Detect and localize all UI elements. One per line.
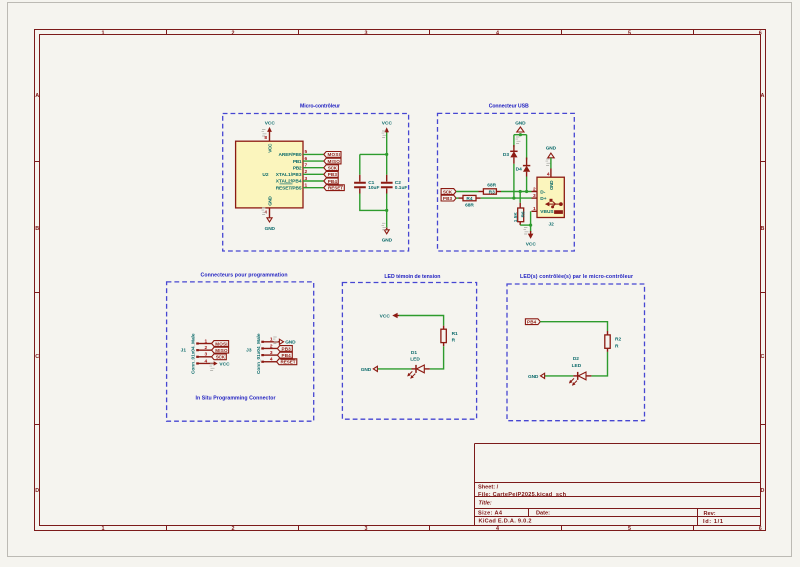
pin 4 of J3 [262,361,277,363]
svg-text:File: CartePeiP2025.kicad_sch: File: CartePeiP2025.kicad_sch [478,492,567,498]
svg-text:MOSI: MOSI [328,152,340,157]
svg-text:U2: U2 [262,172,268,178]
svg-text:GND: GND [546,146,557,152]
svg-text:4: 4 [204,358,207,364]
pin PB2 [293,163,324,172]
svg-text:6: 6 [305,156,308,162]
svg-text:PB3: PB3 [443,196,453,201]
section boxes [167,113,645,421]
node D4/D- junction [525,190,528,193]
power VCC right [210,361,231,370]
wire D3 to D+ [513,164,515,198]
connector J3 [246,333,262,374]
power GND right [279,339,296,346]
svg-text:D-: D- [540,189,545,195]
wire R1 to LED [430,346,444,369]
svg-text:GND: GND [382,237,393,243]
svg-text:LED(s) contrôlée(s) par le mic: LED(s) contrôlée(s) par le micro-contrôl… [520,274,633,280]
svg-text:C: C [761,354,765,360]
svg-text:4: 4 [270,357,273,363]
svg-text:68R: 68R [487,183,496,189]
svg-text:Date:: Date: [536,511,550,517]
svg-text:VCC: VCC [265,121,276,127]
svg-text:GND: GND [361,367,372,373]
svg-text:4: 4 [547,172,550,178]
svg-text:2: 2 [533,186,536,192]
svg-text:R: R [452,338,456,344]
pin 3 D+ of J2 [532,193,547,202]
LED D2 [569,356,592,386]
svg-text:1.5K: 1.5K [513,212,519,223]
svg-text:C: C [35,354,39,360]
svg-text:SCK: SCK [328,166,338,171]
USB icon in J2 [545,199,563,214]
svg-text:In Situ Programming Connector: In Situ Programming Connector [196,396,276,402]
svg-text:B: B [35,226,39,232]
svg-text:XTAL1/PB3: XTAL1/PB3 [276,172,302,178]
resistor R6 pullup [513,190,527,225]
svg-text:3: 3 [533,193,536,199]
pin RESET/PB5 [276,182,324,191]
svg-text:D: D [761,488,765,494]
svg-text:RESET/PB5: RESET/PB5 [276,185,302,191]
pin 3 of J3 [262,354,277,356]
resistor R1 [441,326,458,347]
svg-text:D: D [35,488,39,494]
wire R6 bottom to VBUS node [520,224,530,226]
diode D4 [516,158,531,177]
svg-text:1: 1 [102,526,105,532]
svg-text:5: 5 [628,526,631,532]
svg-text:J1: J1 [181,348,187,354]
power VCC bottom [524,228,537,248]
capacitor C1 [354,175,379,194]
svg-text:SCK: SCK [216,355,226,360]
pin XTAL1/PB3 [276,169,324,178]
wire D4 branch [526,135,528,160]
hier label MISO [324,158,341,164]
hier label SCK [324,165,339,171]
led2 section [525,319,621,386]
capacitor C2 [381,175,407,194]
svg-text:4: 4 [496,30,499,36]
pin 3 of J1 [197,356,212,358]
svg-text:Connecteur USB: Connecteur USB [489,104,529,110]
wire D4 to D- [526,177,528,192]
svg-text:Micro-contrôleur: Micro-contrôleur [300,104,340,110]
svg-text:PB1: PB1 [293,159,302,165]
wire R2 to LED [591,352,607,376]
power GND top bridge [515,121,526,144]
svg-text:3: 3 [365,526,368,532]
svg-text:VCC: VCC [219,361,230,367]
pin 4 of J1 to VCC [197,362,214,364]
resistor R3 [479,183,502,196]
wire LED to GND [377,368,411,370]
wire GND to J2 pin 4 [550,158,552,169]
svg-text:MISO: MISO [215,348,228,353]
svg-text:R1: R1 [452,331,458,337]
svg-text:J3: J3 [246,348,252,354]
pin 4 GND of J2 [547,169,555,191]
svg-text:4: 4 [496,526,499,532]
svg-text:1: 1 [102,30,105,36]
svg-text:2: 2 [232,526,235,532]
pin XTAL2/PB4 [276,176,324,185]
svg-text:Conn_01x04_Male: Conn_01x04_Male [191,333,197,374]
svg-text:D4: D4 [516,166,522,172]
svg-text:D1: D1 [411,350,417,356]
wire GND bridge [514,134,527,136]
svg-text:KiCad E.D.A. 9.0.2: KiCad E.D.A. 9.0.2 [479,519,532,525]
hier label MOSI [212,341,229,347]
svg-text:PB4: PB4 [282,353,292,358]
node junction bottom [385,209,388,212]
pin 2 of J3 [262,347,277,349]
svg-text:VCC: VCC [382,121,393,127]
hier label MOSI [324,152,341,158]
svg-text:5: 5 [305,149,308,155]
svg-text:0.1uF: 0.1uF [395,185,408,191]
svg-text:GND: GND [515,121,526,127]
power GND left [528,373,545,380]
resistor R2 [605,331,622,352]
svg-text:3: 3 [270,350,273,356]
pin 2 D- of J2 [532,186,546,195]
wire LED to GND [544,375,573,377]
svg-text:6: 6 [759,30,762,36]
microcontroller U2 [236,141,303,208]
svg-text:D3: D3 [503,152,509,158]
usb section [441,121,564,248]
svg-text:A: A [761,93,765,99]
svg-text:D+: D+ [540,196,546,202]
hier label PB3 [277,346,292,352]
svg-text:Rev:: Rev: [704,511,716,517]
svg-text:R: R [615,343,619,349]
svg-text:3: 3 [204,352,207,358]
svg-text:68R: 68R [465,203,474,209]
power VCC top of U2 [262,121,276,153]
svg-text:R2: R2 [615,337,621,343]
power GND bottom of U2 [262,196,276,232]
svg-text:A: A [35,93,39,99]
wire cap top bridge [360,153,387,155]
svg-text:Title:: Title: [479,501,492,507]
svg-text:LED: LED [572,363,582,369]
wire C1 bottom [360,194,387,211]
pin 1 of J1 [197,343,212,345]
svg-text:MOSI: MOSI [215,341,227,346]
svg-text:VCC: VCC [267,143,273,153]
svg-text:PB3: PB3 [328,172,338,177]
svg-text:D2: D2 [573,356,579,362]
pin PB1 [293,156,324,165]
wire D+ line [481,197,532,199]
LED D1 [407,350,430,379]
svg-text:GND: GND [549,180,555,190]
power VCC left [380,313,399,320]
svg-text:2: 2 [305,169,308,175]
wire C1 branch down [359,154,361,174]
pin 1 of J3 to GND [262,341,279,343]
wire D3 branch [513,135,515,148]
hier label PB3 [441,195,456,201]
wire PB3 to R4 [456,197,458,199]
hier label MISO [212,347,229,353]
svg-text:LED témoin de tension: LED témoin de tension [384,274,440,280]
pin AREF/PB0 [279,149,324,158]
svg-text:PB4: PB4 [527,320,537,325]
resistor R4 [459,195,481,208]
svg-text:1: 1 [533,206,536,212]
svg-text:Conn_01x04_Male: Conn_01x04_Male [256,333,262,374]
hier label PB4 [324,178,338,184]
hier label PB4 [525,319,540,325]
svg-text:R6: R6 [520,211,526,217]
hier label RESET [324,185,345,191]
wire PB4 to R2 [540,322,607,331]
svg-text:R4: R4 [466,196,472,202]
svg-text:R3: R3 [489,189,495,195]
svg-text:7: 7 [305,163,308,169]
svg-text:PB2: PB2 [293,165,302,171]
power GND at J2 [546,146,557,166]
hier label PB3 [324,171,338,177]
power GND left [361,366,378,373]
svg-text:B: B [761,226,765,232]
svg-text:LED: LED [410,356,420,362]
power VCC decoupling rail [382,121,393,138]
svg-text:VCC: VCC [380,313,391,319]
svg-text:3: 3 [365,30,368,36]
svg-text:RESET: RESET [328,185,343,190]
frame inner [40,35,761,526]
svg-text:Id: 1/1: Id: 1/1 [703,519,723,525]
node VBUS/VCC junction [529,224,532,227]
node D3/D+ junction [512,197,515,200]
svg-text:MISO: MISO [328,159,341,164]
power GND rail [382,223,393,243]
svg-text:3: 3 [305,176,308,182]
svg-text:2: 2 [270,343,273,349]
svg-text:VCC: VCC [526,242,537,248]
wire VBUS down [530,211,532,232]
connector J2 body [537,177,564,217]
svg-text:5: 5 [628,30,631,36]
micro section [236,121,408,244]
hier label SCK [441,189,456,195]
svg-text:GND: GND [265,226,276,232]
hier label RESET [277,359,297,365]
svg-text:GND: GND [285,340,296,346]
pin 2 of J1 [197,349,212,351]
svg-text:PB4: PB4 [328,179,338,184]
svg-text:Sheet: /: Sheet: / [478,484,499,490]
svg-text:2: 2 [204,345,207,351]
connector J1 [181,333,197,374]
wire C2 to GND [386,194,388,230]
svg-text:J2: J2 [549,221,555,227]
svg-text:AREF/PB0: AREF/PB0 [279,152,302,158]
hier label SCK [212,354,227,360]
svg-text:RESET: RESET [281,360,296,365]
svg-text:SCK: SCK [443,189,453,194]
svg-text:VBUS: VBUS [540,209,554,215]
svg-text:10uF: 10uF [368,185,379,191]
svg-text:PB3: PB3 [282,346,292,351]
node bridge junction [519,133,522,136]
pin 1 VBUS of J2 [532,206,555,215]
hier label PB4 [277,352,292,358]
wire VCC rail down [386,133,388,175]
svg-text:1: 1 [204,338,207,344]
svg-text:1: 1 [305,182,308,188]
svg-text:6: 6 [759,526,762,532]
wire D- line [501,191,532,193]
diode D3 [503,145,518,164]
node junction top [385,153,388,156]
wire VCC to R1 [399,316,444,326]
svg-text:Connecteurs pour programmation: Connecteurs pour programmation [201,272,288,278]
wire SCK to R3 [456,191,478,193]
title block [475,444,761,526]
svg-text:2: 2 [232,30,235,36]
prog section [181,333,297,374]
svg-text:1: 1 [270,337,273,343]
svg-text:GND: GND [267,196,273,206]
svg-text:8: 8 [264,135,267,141]
svg-text:Size: A4: Size: A4 [478,511,503,517]
svg-text:GND: GND [528,374,539,380]
led1 section [361,313,458,379]
